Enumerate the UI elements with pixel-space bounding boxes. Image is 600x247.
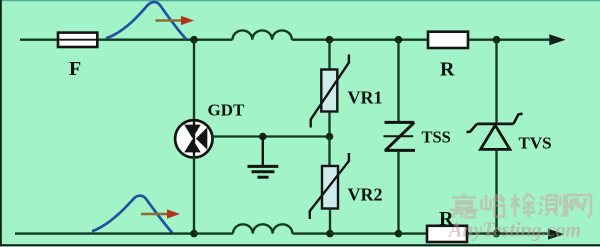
surge waveform top [106,2,186,39]
wire node J to output arrow bottom [497,229,565,240]
TSS [384,122,416,150]
TVS [467,114,523,150]
node B [326,36,334,44]
wire resistor R1 to node D [468,39,497,41]
resistor R2 [427,226,467,242]
svg-text:R: R [440,59,455,81]
wire fuse to node A [97,39,194,41]
wire GDT to node E [211,135,330,137]
wire TVS branch lower [495,149,497,233]
wire GDT branch lower [193,156,195,234]
arrow surge bottom [141,209,180,218]
wire bottom rail left [15,232,194,234]
surge waveform bottom [92,196,172,233]
wire TSS branch upper [397,40,399,123]
label GDT [208,101,246,120]
node H [326,230,334,238]
wire node D to output arrow [497,34,566,45]
label R1 [440,59,455,81]
varistor VR1 [311,55,349,128]
svg-text:GDT: GDT [208,101,246,120]
wire node A to inductor L1 [194,39,233,41]
watermark [450,194,591,219]
wire resistor R2 to node J [467,232,497,234]
ground [248,166,279,177]
svg-text:F: F [69,58,81,80]
wire node G to inductor L2 [194,232,233,234]
wire TVS branch upper [495,40,497,124]
label F [69,58,81,80]
label VR2 [348,185,383,205]
wire node C to resistor R1 [399,39,429,41]
fuse F [58,33,97,47]
varistor VR2 [310,153,349,219]
watermark english [447,218,581,242]
node G [190,230,198,238]
wire VR1 to node F [328,112,330,137]
wire node F to varistor VR2 [328,137,330,167]
wire inductor L1 to node B [292,39,330,41]
svg-text:VR2: VR2 [348,185,383,205]
wire node B to varistor VR1 [328,40,330,70]
GDT tube [175,120,212,157]
node I [395,230,403,238]
wire node I to resistor R2 [399,232,428,234]
wire top rail left [20,39,58,41]
wire GDT branch upper [193,40,195,121]
node E [259,133,267,141]
svg-text:VR1: VR1 [348,88,383,108]
wire VR2 to bottom rail [329,209,331,234]
wire inductor L2 to node H [292,232,330,234]
label VR1 [348,88,383,108]
svg-text:TVS: TVS [519,134,552,153]
node D [493,36,501,44]
node A [190,36,198,44]
wire node H to node I [330,232,399,234]
node J [493,230,501,238]
label TSS [422,128,451,147]
svg-text:AnyTesting.com: AnyTesting.com [447,218,581,242]
node C [395,36,403,44]
svg-text:TSS: TSS [422,128,451,147]
resistor R1 [428,32,468,48]
node F [326,133,334,141]
label R2 [439,208,454,230]
inductor L2 [233,224,292,233]
wire node B to node C [330,39,399,41]
wire ground tap [262,137,264,166]
arrow surge top [156,16,195,25]
wire TSS branch lower [397,150,399,233]
label TVS [519,134,552,153]
inductor L1 [233,30,292,39]
